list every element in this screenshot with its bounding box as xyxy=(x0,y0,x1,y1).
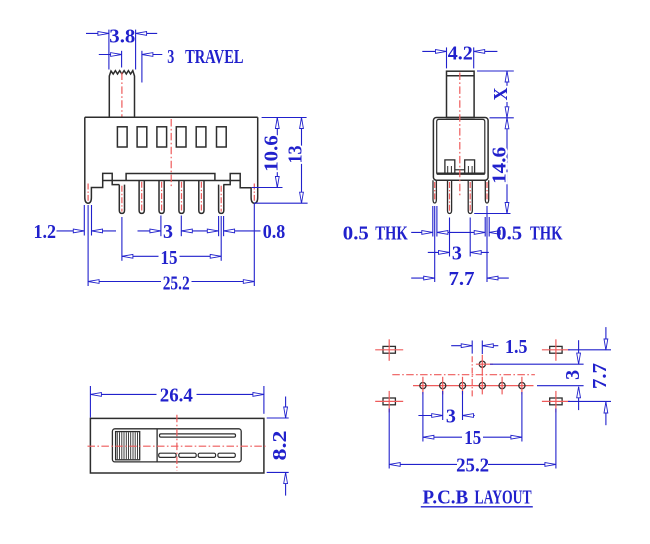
side view back pin 1 xyxy=(448,180,452,213)
svg-text:0.8: 0.8 xyxy=(263,221,286,243)
pcb hole row extension line right xyxy=(537,385,584,387)
svg-text:X: X xyxy=(490,87,512,100)
front view terminal pin 3 xyxy=(159,181,164,214)
top view slide slot bar xyxy=(160,434,236,437)
pcb hole 2 xyxy=(440,383,446,389)
dimension 1.5 arrows xyxy=(451,345,472,347)
svg-text:0.5: 0.5 xyxy=(343,223,369,245)
front view vent slot 4 xyxy=(176,127,186,147)
pcb hole 4 xyxy=(479,383,485,389)
side view body outer frame xyxy=(433,118,488,181)
dimension 1.2 arrows xyxy=(57,230,85,232)
front view terminal pin 1 xyxy=(119,185,124,214)
front view vent slot 1 xyxy=(117,127,127,147)
front view vent slot 6 xyxy=(217,127,227,147)
side view contact channel between blocks xyxy=(455,169,465,171)
dimension 4.2 extension lines xyxy=(446,47,448,68)
svg-text:15: 15 xyxy=(161,247,178,269)
side view right leg red center xyxy=(486,182,488,201)
dimension 0.5 THK left extension lines xyxy=(432,206,434,237)
front view left leg center line (red) xyxy=(87,184,89,201)
pcb mounting pad top-left xyxy=(383,346,395,353)
dimension 26.4 extension lines xyxy=(89,386,91,418)
svg-text:THK: THK xyxy=(375,223,408,245)
front view terminal pin 4 xyxy=(179,181,184,214)
dimension 15 extension lines xyxy=(121,217,123,261)
dimension 15 (pcb) line and arrows xyxy=(423,436,462,438)
dimension 3.8 arrows and lines xyxy=(86,32,109,34)
side view contact block right xyxy=(465,160,475,174)
pcb pad bottom-right red cross xyxy=(542,400,570,402)
front view pin 1 center line (red) xyxy=(121,186,123,212)
pcb hole 4 red cross vertical xyxy=(481,377,483,395)
front view vent slot 5 xyxy=(196,127,206,147)
svg-text:P.C.B: P.C.B xyxy=(423,487,469,509)
top view inner frame rounded rect xyxy=(112,429,241,462)
top view knob serration hatch lines xyxy=(116,432,118,459)
pcb pad bottom-left red cross xyxy=(375,400,403,402)
right side extension lines (front view) xyxy=(262,117,307,119)
side view right mounting leg xyxy=(485,180,488,203)
dimension 7.7 arrows xyxy=(411,277,435,279)
top view knob rectangle xyxy=(116,432,140,460)
dimension line 10.6 xyxy=(276,118,278,188)
pcb horizontal center line (red dash-dot) xyxy=(392,374,535,376)
dimension 15 line and arrows xyxy=(122,255,159,257)
top view bottom slot bar 4 xyxy=(218,453,235,457)
pcb vertical center line (red dash-dot) xyxy=(471,356,473,397)
pcb hole 5 xyxy=(499,383,505,389)
dimension 1.5 extension lines xyxy=(471,341,473,354)
dimension 3 (side) arrows xyxy=(428,251,450,253)
dimension 3 (pcb horizontal) extension lines xyxy=(442,391,444,420)
top view bottom slot bar 3 xyxy=(198,453,215,457)
pcb offset hole xyxy=(479,361,485,367)
dimension 3 (pcb vertical) arrows xyxy=(578,340,580,364)
svg-text:14.6: 14.6 xyxy=(489,147,511,184)
front view pin 2 center line (red) xyxy=(141,182,143,212)
top view horizontal center line (red dash-dot) xyxy=(88,445,266,447)
dimension 0.8 arrow and line xyxy=(224,230,261,232)
pcb mounting pad bottom-left xyxy=(383,398,395,405)
svg-text:7.7: 7.7 xyxy=(589,363,611,389)
svg-text:10.6: 10.6 xyxy=(260,135,282,172)
svg-text:7.7: 7.7 xyxy=(449,268,475,290)
pcb hole 2 red cross vertical xyxy=(442,377,444,395)
svg-text:25.2: 25.2 xyxy=(456,454,489,476)
svg-text:3.8: 3.8 xyxy=(109,26,135,48)
svg-text:1.5: 1.5 xyxy=(505,336,528,358)
dimension 4.2 arrows xyxy=(422,50,446,52)
pcb mounting pad bottom-right xyxy=(550,398,562,405)
side view back pin 2 red center xyxy=(469,182,471,212)
side view contact block left xyxy=(445,160,455,174)
top view outer body rectangle xyxy=(90,418,264,473)
dimension 25.2 (pcb) line and arrows xyxy=(389,463,457,465)
front view pin 4 center line (red) xyxy=(181,182,183,212)
front view vent slot 3 xyxy=(157,127,167,147)
side view pin tip extension line xyxy=(474,213,510,215)
dimension line 13 xyxy=(301,118,303,204)
svg-text:25.2: 25.2 xyxy=(163,272,190,294)
svg-text:3: 3 xyxy=(446,406,456,428)
dimension 3 (pcb horizontal) arrows xyxy=(418,415,442,417)
pcb offset hole red cross xyxy=(481,355,483,376)
dimension 3.8 extension lines xyxy=(108,30,110,70)
front view vent slot 2 xyxy=(137,127,147,147)
dimension 3 TRAVEL extension lines xyxy=(121,51,123,68)
side view left leg red center xyxy=(434,182,436,201)
front view body left side and left mounting leg xyxy=(85,117,120,203)
title underline xyxy=(421,506,533,508)
front view pin 5 center line (red) xyxy=(200,182,202,212)
pcb hole row red center line xyxy=(413,385,534,387)
pcb pad bottom extension line right xyxy=(568,400,611,402)
front view body bottom edge xyxy=(103,180,241,182)
pcb offset hole extension line right xyxy=(490,363,584,365)
svg-text:1.2: 1.2 xyxy=(34,221,57,243)
front view terminal pin 2 xyxy=(139,181,144,214)
side view body inner frame walls xyxy=(437,119,485,173)
dimension 0.5 THK right extension lines xyxy=(484,217,486,237)
svg-text:3: 3 xyxy=(167,46,174,68)
dimension line 14.6 xyxy=(506,118,508,214)
svg-text:THK: THK xyxy=(530,223,563,245)
pcb hole 6 red cross vertical xyxy=(521,377,523,395)
side view body top extension line xyxy=(490,117,514,119)
pcb hole 5 red cross vertical xyxy=(501,377,503,395)
front view switch body top edge xyxy=(85,116,258,118)
front view knob center line (red dash-dot) xyxy=(121,73,123,117)
side view pin pass-through left xyxy=(447,166,449,173)
pcb hole 1 red cross vertical xyxy=(422,377,424,395)
front view body vertical center line (red dash-dot) xyxy=(170,119,172,187)
side view base plate (thick) xyxy=(437,172,485,174)
side view back pin 2 xyxy=(468,180,472,213)
dimension 3 TRAVEL arrows xyxy=(99,54,122,56)
pcb pad top-left red cross xyxy=(375,349,403,351)
dimension 1.2 extension lines xyxy=(83,205,85,236)
front view terminal pin 5 xyxy=(199,181,204,214)
pcb hole 3 red cross vertical xyxy=(462,377,464,395)
dimension 8.2 extension lines xyxy=(267,417,289,419)
dimension 0.5 THK left arrows xyxy=(411,231,433,233)
svg-text:3: 3 xyxy=(452,242,462,264)
dimension 7.7 extension lines xyxy=(434,206,436,282)
dimension 8.2 arrows xyxy=(285,397,287,419)
side view knob cap line xyxy=(447,75,475,77)
dimension 26.4 line and arrows xyxy=(90,393,156,395)
side view knob outline xyxy=(447,71,475,117)
dimension 0.8 extension lines xyxy=(218,216,220,236)
front view body right side and right mounting leg xyxy=(223,117,257,203)
svg-text:13: 13 xyxy=(285,146,307,164)
side view center line (red dash-dot) xyxy=(459,73,461,197)
top view bottom slot bar 1 xyxy=(159,453,176,457)
side view left mounting leg xyxy=(433,180,436,203)
svg-text:15: 15 xyxy=(464,427,481,449)
pcb hole 1 xyxy=(420,383,426,389)
dimension 3 (pin pitch) arrows xyxy=(138,230,161,232)
dimension 0.5 THK right arrows xyxy=(457,231,485,233)
dimension 7.7 (pcb) arrows xyxy=(605,327,607,350)
pcb pad top extension line right xyxy=(568,349,611,351)
dimension 3 (side) extension lines xyxy=(449,218,451,257)
svg-text:LAYOUT: LAYOUT xyxy=(475,487,533,509)
top view vertical center line (red dash-dot) xyxy=(176,415,178,471)
front view pin 3 center line (red) xyxy=(161,182,163,212)
side view back pin 1 red center xyxy=(449,182,451,212)
dimension 3 (pin pitch) extension lines xyxy=(160,216,162,237)
front view right leg center line (red) xyxy=(253,184,255,201)
side view pin pass-through right xyxy=(467,166,469,173)
dimension 25.2 line and arrows xyxy=(88,281,161,283)
front view knob (actuator) outline with serrated top xyxy=(109,71,134,118)
dimension 25.2 (pcb) extension lines xyxy=(388,409,390,469)
svg-text:8.2: 8.2 xyxy=(269,431,291,461)
pcb hole 6 xyxy=(519,383,525,389)
dimension 25.2 extension lines xyxy=(87,205,89,286)
svg-text:3: 3 xyxy=(163,221,173,243)
dimension line X xyxy=(506,71,508,118)
top view bottom slot bar 2 xyxy=(179,453,196,457)
side view knob top extension line xyxy=(477,70,514,72)
svg-text:26.4: 26.4 xyxy=(160,385,193,407)
svg-text:0.5: 0.5 xyxy=(496,223,522,245)
pcb pad top-right red cross xyxy=(542,349,570,351)
front view terminal pin 6 xyxy=(219,185,224,214)
dimension 15 (pcb) extension lines xyxy=(422,392,424,442)
top view divider line xyxy=(156,429,158,462)
front view base plate ridge xyxy=(126,174,215,181)
svg-text:3: 3 xyxy=(562,370,584,380)
svg-text:4.2: 4.2 xyxy=(448,43,473,65)
front view pin 6 center line (red) xyxy=(220,186,222,212)
pcb mounting pad top-right xyxy=(550,346,562,353)
svg-text:TRAVEL: TRAVEL xyxy=(185,46,243,68)
pcb hole 3 xyxy=(459,383,465,389)
